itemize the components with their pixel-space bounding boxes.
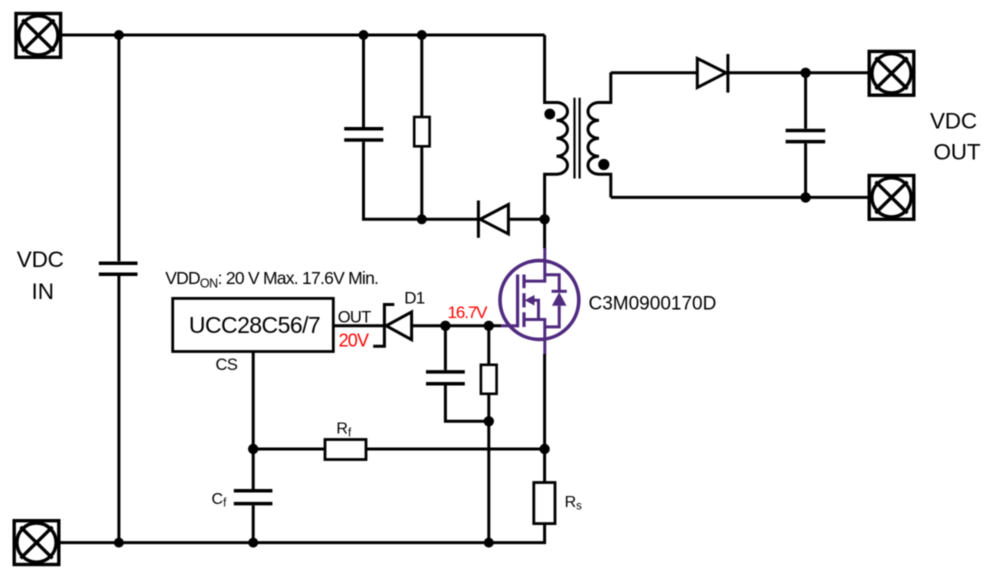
diode output rectifier [697, 54, 728, 93]
transformer T1 secondary winding [588, 72, 611, 197]
wire drain link [543, 219, 546, 248]
connector J3 VDC OUT + [869, 51, 914, 95]
node dot gate RC cap [440, 321, 450, 331]
capacitor snubber [344, 129, 383, 140]
wire Rf right [366, 448, 545, 451]
wire source stub purple [543, 338, 546, 355]
IC U1 UCC28C56/7 box [173, 298, 334, 351]
wire snubber cap branch [362, 35, 365, 127]
resistor snubber [414, 117, 429, 146]
connector J2 VDC IN - [14, 521, 59, 565]
capacitor gate [426, 372, 465, 384]
svg-text:CS: CS [216, 356, 238, 374]
node dot drain clamp [539, 214, 549, 224]
transformer core [575, 98, 580, 179]
node dot bottom rail left [114, 538, 124, 548]
wire OUT pin [333, 324, 383, 327]
diode snubber clamp [478, 201, 508, 238]
transformer T1 primary winding [545, 35, 568, 219]
wire diode to drain node [508, 218, 544, 221]
svg-text:UCC28C56/7: UCC28C56/7 [189, 312, 320, 338]
svg-text:20V: 20V [339, 330, 369, 350]
connector J1 VDC IN + [16, 14, 61, 58]
wire Rf left [253, 448, 325, 451]
wire bottom rail [59, 524, 545, 543]
svg-text:D1: D1 [404, 289, 424, 308]
wire source link [543, 354, 546, 483]
wire gate cap branch [444, 326, 447, 370]
node dot bottom rail Cf [248, 538, 258, 548]
label VDC OUT [930, 109, 981, 165]
node dot output + [800, 68, 810, 78]
wire Cf bottom [252, 505, 255, 542]
svg-text:VDC: VDC [930, 109, 977, 134]
wire gate res bottom to ground [487, 394, 490, 543]
node dot output - [800, 192, 810, 202]
svg-text:OUT: OUT [338, 309, 372, 327]
node dot CS Rf [248, 444, 258, 454]
wire left bus upper [117, 35, 120, 261]
svg-text:C3M0900170D: C3M0900170D [589, 294, 717, 315]
wire snubber res bottom [420, 146, 423, 219]
svg-text:VDC: VDC [17, 247, 64, 272]
wire rectifier to output [728, 71, 869, 74]
node dot RC bottom [484, 416, 494, 426]
node dot bottom rail sense [484, 538, 494, 548]
wire zener to gate [412, 324, 501, 327]
wire output bottom rail [611, 196, 869, 199]
wire snubber to diode [422, 218, 477, 221]
wire gate cap bottom [445, 386, 488, 422]
wire output cap bottom [804, 143, 807, 197]
connector J4 VDC OUT - [869, 176, 914, 220]
node dot snubber cap top [359, 30, 369, 40]
transistor Q1 C3M0900170D MOSFET [500, 261, 579, 340]
wire gate res branch [487, 326, 490, 365]
wire output cap top [804, 73, 807, 129]
label VDC IN [17, 247, 64, 304]
wire snubber res branch [420, 35, 423, 117]
pin CS wire [252, 352, 255, 490]
transformer secondary phase dot [598, 159, 609, 170]
svg-text:16.7V: 16.7V [448, 303, 489, 322]
node dot gate RC res [484, 321, 494, 331]
wire top rail [61, 34, 545, 37]
svg-text:IN: IN [32, 279, 55, 304]
capacitor input bulk [99, 263, 138, 274]
svg-text:VDDON: 20 V Max. 17.6V Min.: VDDON: 20 V Max. 17.6V Min. [165, 268, 378, 291]
transformer primary phase dot [544, 109, 555, 120]
node dot snubber res top [417, 30, 427, 40]
resistor gate [481, 365, 497, 394]
svg-text:OUT: OUT [934, 140, 981, 165]
node dot top-left bus [114, 30, 124, 40]
wire snubber cap bottom [364, 142, 422, 220]
capacitor output [786, 131, 826, 142]
node dot source Rf [539, 444, 549, 454]
wire left bus lower [117, 276, 120, 543]
zener diode D1 [373, 305, 411, 347]
wire secondary top [611, 71, 696, 74]
capacitor Cf [234, 491, 273, 504]
resistor Rf [325, 440, 366, 460]
resistor Rs [534, 483, 555, 524]
wire drain stub purple [543, 248, 546, 262]
node dot snubber bottom [417, 214, 427, 224]
